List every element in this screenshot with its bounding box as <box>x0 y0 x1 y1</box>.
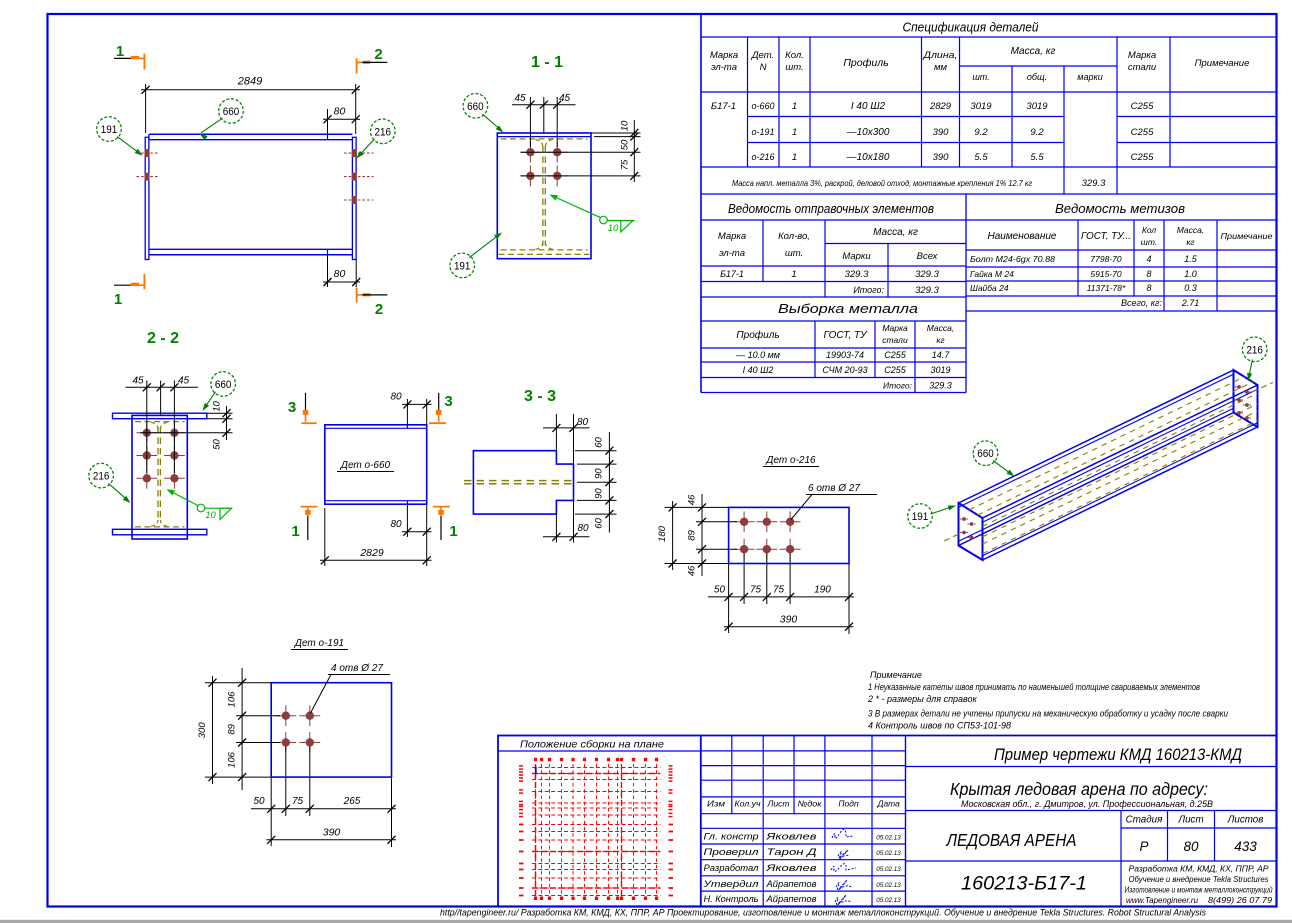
label circle 660 (section 1-1) <box>463 94 488 119</box>
svg-text:660: 660 <box>215 379 232 391</box>
dimensions 46/89/46 (left of o-216) <box>665 494 738 576</box>
svg-text:89: 89 <box>227 723 238 734</box>
svg-text:50: 50 <box>620 139 631 150</box>
svg-text:191: 191 <box>101 124 118 136</box>
svg-text:2 - 2: 2 - 2 <box>147 330 179 347</box>
leader 660 (2-2) <box>204 392 216 410</box>
leader 216 to right plate <box>358 139 375 157</box>
svg-text:90: 90 <box>594 468 605 479</box>
svg-text:Изготовление и монтаж металлок: Изготовление и монтаж металлоконструкций <box>1125 886 1274 895</box>
svg-text:— 10.0 мм: — 10.0 мм <box>735 350 780 360</box>
dimension 80 bottom right <box>323 255 360 287</box>
bottom flange (2-2) <box>113 529 207 535</box>
center hidden lines (3-3) <box>464 481 574 484</box>
svg-text:8: 8 <box>1146 283 1151 293</box>
svg-text:Итого:: Итого: <box>853 285 884 295</box>
svg-text:329.3: 329.3 <box>915 269 939 280</box>
svg-text:С255: С255 <box>1131 101 1154 112</box>
bolts on left end face (3D) <box>960 517 976 539</box>
label circle 191 (3D) <box>908 504 933 529</box>
detail view o-216 <box>763 455 819 467</box>
dimension 45/45 (top of 1-1) <box>512 93 576 147</box>
section mark 3 (top right of o-660) <box>429 393 453 423</box>
svg-text:10: 10 <box>620 120 631 131</box>
leader 660 (3D) <box>993 461 1013 475</box>
svg-text:05.02.13: 05.02.13 <box>876 866 901 873</box>
svg-text:Н. Контроль: Н. Контроль <box>704 894 759 904</box>
svg-text:Дет о-216: Дет о-216 <box>765 455 816 466</box>
svg-text:Изм: Изм <box>707 799 725 809</box>
dimensions 10/50 (right of 2-2) <box>140 401 233 450</box>
label circle 191 (section 1-1) <box>450 253 475 278</box>
svg-text:Яковлев: Яковлев <box>765 832 817 842</box>
svg-text:80: 80 <box>334 268 346 280</box>
svg-text:Утвердил: Утвердил <box>702 879 758 889</box>
svg-text:Болт М24-6gх 70.88: Болт М24-6gх 70.88 <box>970 255 1056 264</box>
svg-text:С255: С255 <box>1131 127 1154 138</box>
svg-text:кг: кг <box>936 335 944 345</box>
leader 191 to left plate <box>117 137 141 155</box>
dimensions 10/50/75 (right of 1-1) <box>521 120 641 182</box>
table: specification data rows <box>711 101 1154 189</box>
svg-text:Марки: Марки <box>842 251 871 262</box>
long edges <box>959 370 1234 503</box>
svg-text:Кол: Кол <box>1142 225 1157 235</box>
svg-text:Масса, кг: Масса, кг <box>873 227 918 238</box>
table: metal selection grid <box>701 297 966 393</box>
svg-text:Стадия: Стадия <box>1126 815 1163 826</box>
svg-text:4 отв Ø 27: 4 отв Ø 27 <box>331 663 383 674</box>
svg-text:2 * - размеры для справок: 2 * - размеры для справок <box>867 694 978 704</box>
svg-text:Марка: Марка <box>710 50 738 61</box>
svg-text:5915-70: 5915-70 <box>1090 269 1121 279</box>
svg-text:С255: С255 <box>884 365 907 375</box>
svg-text:Кол.: Кол. <box>785 50 804 61</box>
table: hardware list text <box>970 202 1273 308</box>
detail view o-660 <box>325 425 427 504</box>
svg-text:75: 75 <box>292 796 304 807</box>
svg-text:7798-70: 7798-70 <box>1090 254 1121 264</box>
svg-text:660: 660 <box>977 448 994 460</box>
svg-text:шт.: шт. <box>972 72 989 82</box>
leader 191 (3D) <box>931 506 954 514</box>
svg-text:Масса, кг: Масса, кг <box>1011 46 1056 57</box>
svg-text:10: 10 <box>608 223 619 234</box>
svg-text:80: 80 <box>1183 839 1199 854</box>
svg-text:Проверил: Проверил <box>704 847 759 857</box>
svg-text:80: 80 <box>577 523 589 534</box>
label Det o-660 <box>337 460 394 472</box>
plate o-191 face (section 1-1) <box>497 133 591 259</box>
svg-text:стали: стали <box>882 335 908 345</box>
svg-text:Московская обл., г. Дмитров, у: Московская обл., г. Дмитров, ул. Професс… <box>961 799 1213 809</box>
svg-text:300: 300 <box>197 722 208 739</box>
svg-text:ГОСТ, ТУ...: ГОСТ, ТУ... <box>1081 231 1131 242</box>
label circle 660 (section 2-2) <box>211 372 236 397</box>
svg-text:9.2: 9.2 <box>974 127 988 138</box>
svg-text:Марка: Марка <box>718 231 746 242</box>
svg-text:19903-74: 19903-74 <box>826 350 864 360</box>
svg-text:05.02.13: 05.02.13 <box>876 850 901 857</box>
svg-text:3 В размерах детали не учтены: 3 В размерах детали не учтены припуски н… <box>868 709 1228 719</box>
svg-text:Дет о-191: Дет о-191 <box>294 638 344 649</box>
dimensions 106/89/106 (left of o-191) <box>205 668 280 790</box>
svg-text:50: 50 <box>212 439 223 450</box>
svg-text:05.02.13: 05.02.13 <box>876 835 901 842</box>
dimension 80 (bottom of 3-3) <box>543 500 590 542</box>
svg-text:4 Контроль швов по СП53-101-9: 4 Контроль швов по СП53-101-98 <box>868 721 1011 731</box>
svg-text:190: 190 <box>814 585 831 596</box>
dimension 80 (bottom of o-660) <box>390 504 431 537</box>
beam bottom flange <box>149 248 353 250</box>
svg-text:80: 80 <box>390 392 402 403</box>
bolts on right end face (3D) <box>1235 385 1251 420</box>
svg-text:14.7: 14.7 <box>932 350 951 360</box>
svg-text:Гайка М 24: Гайка М 24 <box>970 269 1014 279</box>
label circle 216 (section 2-2) <box>89 463 114 488</box>
svg-text:шт.: шт. <box>785 248 803 259</box>
svg-text:Кол-во,: Кол-во, <box>778 231 810 242</box>
svg-text:660: 660 <box>467 101 484 113</box>
section mark 2 (bottom) <box>357 288 388 319</box>
svg-text:11371-78*: 11371-78* <box>1087 283 1126 293</box>
svg-text:Пример чертежи КМД 160213-КМД: Пример чертежи КМД 160213-КМД <box>994 745 1242 764</box>
svg-text:390: 390 <box>933 127 950 138</box>
svg-text:329.3: 329.3 <box>1082 178 1106 189</box>
label circle 216 (3D) <box>1242 337 1267 362</box>
svg-text:Всего, кг:: Всего, кг: <box>1121 298 1163 308</box>
svg-text:46: 46 <box>687 565 698 576</box>
bolts at right plate (elevation) <box>344 149 374 204</box>
svg-text:Всех: Всех <box>917 251 939 262</box>
svg-text:Масса,: Масса, <box>927 323 955 333</box>
svg-text:2829: 2829 <box>929 101 952 112</box>
svg-text:1: 1 <box>291 523 299 540</box>
signature rows text <box>702 832 901 905</box>
bottom gray window strip <box>0 920 1292 923</box>
svg-text:216: 216 <box>375 126 392 138</box>
svg-text:80: 80 <box>390 519 402 530</box>
svg-text:мм: мм <box>934 62 948 73</box>
dimensions 50/75/265 (bottom of o-191) <box>251 747 396 848</box>
weld symbol 10 (section 1-1) <box>550 195 635 234</box>
svg-text:Примечание: Примечание <box>870 670 922 680</box>
left end plate face <box>959 503 983 560</box>
svg-text:Айрапетов: Айрапетов <box>765 879 816 889</box>
svg-text:Итого:: Итого: <box>883 381 913 391</box>
svg-text:2849: 2849 <box>237 76 262 88</box>
svg-text:о-191: о-191 <box>751 127 774 137</box>
svg-text:3: 3 <box>288 399 296 416</box>
table: specification of details (Spetsifikatsiya detaley) grid <box>701 14 1277 194</box>
svg-text:Тарон Д: Тарон Д <box>767 847 818 857</box>
svg-text:45: 45 <box>514 93 526 104</box>
flange splice marks at 80 <box>327 134 329 140</box>
svg-text:Шайба 24: Шайба 24 <box>970 283 1009 293</box>
svg-text:Подп: Подп <box>838 799 859 809</box>
bolts at left plate (elevation) <box>137 149 158 181</box>
section mark 1 (bottom right of o-660) <box>433 507 458 540</box>
svg-text:эл-та: эл-та <box>719 248 745 259</box>
svg-text:75: 75 <box>620 159 631 170</box>
dimensions 50/75/75/190 (bottom of o-216) <box>708 553 854 634</box>
svg-text:№док: №док <box>798 799 823 809</box>
svg-text:660: 660 <box>223 106 240 118</box>
svg-text:1 Неуказанные катеты швов при: 1 Неуказанные катеты швов принимать по н… <box>868 682 1200 692</box>
stage/sheet boxes text <box>1126 815 1264 855</box>
svg-text:2: 2 <box>375 301 383 318</box>
svg-text:191: 191 <box>454 260 471 272</box>
svg-text:Положение сборки на плане: Положение сборки на плане <box>520 739 664 751</box>
table: metal selection text <box>735 301 954 391</box>
svg-text:Дата: Дата <box>876 799 900 809</box>
table: specification header text <box>710 21 1250 83</box>
svg-text:1: 1 <box>792 127 797 138</box>
svg-text:Выборка металла: Выборка металла <box>778 301 918 316</box>
svg-text:8(499) 26 07 79: 8(499) 26 07 79 <box>1208 896 1273 905</box>
svg-text:2.71: 2.71 <box>1181 298 1200 308</box>
svg-text:эл-та: эл-та <box>711 62 737 73</box>
dimension 180 (o-216) <box>657 501 677 570</box>
flange plan outline with notches (3-3) <box>473 451 573 514</box>
svg-text:5.5: 5.5 <box>1030 152 1044 163</box>
dimensions 60/90/90/60 (right of 3-3) <box>575 432 617 533</box>
svg-text:5.5: 5.5 <box>974 152 988 163</box>
table: hardware list (metizov) grid <box>966 220 1277 311</box>
svg-text:о-216: о-216 <box>751 152 774 162</box>
svg-text:Айрапетов: Айрапетов <box>765 894 816 904</box>
svg-text:Спецификация деталей: Спецификация деталей <box>903 21 1039 35</box>
dimension 80 (top of o-660) <box>390 392 431 425</box>
hidden web/flange dashed (2-2) <box>135 422 185 527</box>
svg-text:1: 1 <box>116 43 124 60</box>
svg-text:1: 1 <box>114 291 122 308</box>
svg-text:СЧМ 20-93: СЧМ 20-93 <box>822 365 867 375</box>
top flange (2-2) <box>113 413 207 419</box>
dimension 390 (o-216) <box>724 604 854 633</box>
svg-text:Кол.уч: Кол.уч <box>735 799 762 809</box>
svg-text:46: 46 <box>687 494 698 505</box>
svg-text:шт.: шт. <box>1141 237 1157 247</box>
label circle 216 (elevation) <box>371 119 396 144</box>
title block: main title area grid <box>906 736 1277 907</box>
leader 660 (1-1) <box>483 114 503 131</box>
red grid: assembly position plan <box>519 758 673 900</box>
svg-text:Б17-1: Б17-1 <box>711 101 736 112</box>
svg-text:Б17-1: Б17-1 <box>720 269 744 279</box>
svg-text:С255: С255 <box>1131 152 1154 163</box>
svg-text:1: 1 <box>449 523 457 540</box>
dimension 2829 (o-660) <box>320 508 432 566</box>
label circle 191 (elevation) <box>97 117 122 142</box>
svg-text:90: 90 <box>594 488 605 499</box>
svg-text:75: 75 <box>773 585 785 596</box>
flange edge line <box>497 136 591 138</box>
svg-text:стали: стали <box>1128 62 1157 73</box>
dimension 45/45 (top of 2-2) <box>126 376 199 474</box>
svg-text:89: 89 <box>687 530 698 541</box>
svg-text:45: 45 <box>132 376 144 387</box>
svg-text:Лист: Лист <box>766 799 789 809</box>
svg-text:9.2: 9.2 <box>1030 127 1044 138</box>
hidden I-beam outline (dashed) <box>499 139 590 255</box>
svg-text:50: 50 <box>714 585 726 596</box>
label circle 660 (elevation) <box>219 99 244 124</box>
svg-text:180: 180 <box>657 525 668 542</box>
end plate o-216 (right) <box>352 137 356 259</box>
plate o-216 outline <box>729 507 849 563</box>
svg-text:45: 45 <box>178 376 190 387</box>
section mark 1 (bottom) <box>114 274 145 308</box>
svg-text:1.5: 1.5 <box>1184 254 1198 264</box>
svg-text:I 40 Ш2: I 40 Ш2 <box>743 365 774 375</box>
svg-text:Крытая ледовая арена по адресу: Крытая ледовая арена по адресу: <box>950 779 1208 799</box>
bolts 2x3 (section 2-2) <box>136 422 184 488</box>
svg-text:80: 80 <box>334 106 346 118</box>
end plate o-191 (left) <box>145 137 149 259</box>
signature table header text <box>707 799 900 809</box>
svg-text:1: 1 <box>792 101 797 112</box>
svg-text:50: 50 <box>253 796 265 807</box>
svg-text:191: 191 <box>912 511 929 523</box>
svg-text:1.0: 1.0 <box>1184 269 1197 279</box>
svg-text:Дет о-660: Дет о-660 <box>340 460 391 471</box>
svg-text:Примечание: Примечание <box>1221 231 1273 241</box>
svg-text:433: 433 <box>1234 839 1257 854</box>
plate o-216 face (section 2-2) <box>132 415 187 539</box>
svg-text:10: 10 <box>212 401 223 412</box>
svg-text:I 40 Ш2: I 40 Ш2 <box>851 101 886 112</box>
svg-text:Ведомость метизов: Ведомость метизов <box>1055 202 1185 216</box>
beam top flange <box>149 133 353 135</box>
company info text <box>1125 865 1274 906</box>
svg-text:Примечание: Примечание <box>1195 58 1250 69</box>
svg-text:Разработка КМ, КМД, КХ, ППР, А: Разработка КМ, КМД, КХ, ППР, АР <box>1129 865 1270 874</box>
svg-text:марки: марки <box>1077 72 1102 82</box>
svg-text:216: 216 <box>1246 344 1263 356</box>
svg-text:45: 45 <box>559 93 571 104</box>
section mark 1 (top) <box>114 43 144 70</box>
svg-text:кг: кг <box>1186 237 1194 247</box>
leader 216 (2-2) <box>109 483 130 501</box>
svg-text:http//tapengineer.ru/ Разрабо: http//tapengineer.ru/ Разработка КМ, КМД… <box>440 908 1207 918</box>
svg-text:80: 80 <box>577 417 589 428</box>
svg-text:3019: 3019 <box>930 365 950 375</box>
svg-text:N: N <box>760 62 767 73</box>
svg-text:05.02.13: 05.02.13 <box>876 882 901 889</box>
leader 6 holes d27 <box>791 483 877 520</box>
svg-text:www.Tapengineer.ru: www.Tapengineer.ru <box>1126 896 1199 905</box>
svg-text:3019: 3019 <box>970 101 992 112</box>
svg-text:329.3: 329.3 <box>915 285 939 296</box>
notes (Primechanie) <box>867 670 1228 731</box>
leader 216 (3D) <box>1249 360 1253 379</box>
section mark 3 (top left of o-660) <box>288 393 317 423</box>
svg-text:60: 60 <box>594 437 605 448</box>
section mark 1 (bottom left of o-660) <box>291 507 317 540</box>
svg-text:Профиль: Профиль <box>843 57 888 69</box>
title block: assembly position plan box <box>498 736 701 907</box>
svg-text:10: 10 <box>205 510 216 521</box>
svg-text:шт.: шт. <box>785 62 803 73</box>
svg-text:160213-Б17-1: 160213-Б17-1 <box>961 874 1087 895</box>
svg-text:Масса напл. металла 3%, раскро: Масса напл. металла 3%, раскрой, деловой… <box>732 179 1032 188</box>
svg-text:3 - 3: 3 - 3 <box>524 388 556 405</box>
svg-text:Гл. констр: Гл. констр <box>704 832 759 842</box>
svg-text:Длина,: Длина, <box>922 50 957 61</box>
weld symbol 10 (section 2-2) <box>167 489 233 521</box>
svg-text:0.3: 0.3 <box>1184 283 1197 293</box>
bolts 2x2 (section 1-1) <box>520 142 568 187</box>
3D isometric view of beam <box>944 370 1273 560</box>
svg-text:4: 4 <box>1146 254 1151 264</box>
svg-text:Масса,: Масса, <box>1177 225 1205 235</box>
bolts 2x2 (o-191) <box>275 705 320 753</box>
leader 660 to top flange <box>201 118 223 133</box>
bolts 3x2 (o-216) <box>734 511 801 559</box>
svg-text:Р: Р <box>1139 839 1148 854</box>
svg-text:о-660: о-660 <box>751 101 774 111</box>
svg-text:2829: 2829 <box>359 547 384 559</box>
label circle 660 (3D) <box>973 441 998 466</box>
table: shipping elements list grid <box>701 194 966 393</box>
svg-text:390: 390 <box>780 614 798 626</box>
svg-text:8: 8 <box>1146 269 1151 279</box>
dimension 300 (o-191) <box>197 676 217 784</box>
svg-text:329.3: 329.3 <box>929 381 952 391</box>
svg-text:3: 3 <box>444 393 452 410</box>
dimension 80 (top of 3-3) <box>543 414 590 464</box>
svg-text:106: 106 <box>227 691 238 708</box>
svg-text:390: 390 <box>933 152 950 163</box>
inner flange edges <box>959 374 1234 507</box>
svg-text:1 - 1: 1 - 1 <box>531 54 563 71</box>
svg-text:60: 60 <box>594 517 605 528</box>
right end plate face <box>1234 370 1258 427</box>
svg-text:1: 1 <box>791 269 796 280</box>
svg-text:Яковлев: Яковлев <box>765 863 817 873</box>
svg-text:216: 216 <box>93 471 110 483</box>
svg-text:Профиль: Профиль <box>736 329 779 341</box>
signature scribbles <box>831 829 856 905</box>
svg-text:6 отв Ø 27: 6 отв Ø 27 <box>808 483 860 494</box>
svg-text:Марка: Марка <box>882 323 908 333</box>
svg-text:329.3: 329.3 <box>845 269 869 280</box>
svg-text:3019: 3019 <box>1026 101 1048 112</box>
dimension 80 top right <box>323 106 360 140</box>
svg-text:05.02.13: 05.02.13 <box>876 897 901 904</box>
svg-text:Листов: Листов <box>1227 815 1264 826</box>
svg-text:—10х180: —10х180 <box>846 152 890 163</box>
plate o-191 outline <box>271 683 391 777</box>
svg-text:Дет.: Дет. <box>751 50 774 61</box>
svg-text:Ведомость отправочных элементо: Ведомость отправочных элементов <box>728 202 934 216</box>
leader 4 holes d27 <box>311 663 391 713</box>
svg-text:—10х300: —10х300 <box>846 127 890 138</box>
svg-text:Наименование: Наименование <box>987 231 1056 242</box>
table: shipping elements text <box>718 202 940 296</box>
section mark 2 (top) <box>357 46 388 74</box>
svg-text:2: 2 <box>374 46 382 63</box>
hidden lines along beam <box>969 377 1244 510</box>
svg-text:1: 1 <box>792 152 797 163</box>
main elevation view: beam B17-1 <box>145 134 356 259</box>
svg-text:Обучение и внедрение Tekla St: Обучение и внедрение Tekla Structures <box>1129 875 1269 884</box>
svg-text:Лист: Лист <box>1177 815 1203 826</box>
svg-text:общ.: общ. <box>1027 72 1047 82</box>
dimension 2849 (overall) <box>141 76 360 135</box>
title block: signature table grid <box>701 736 906 907</box>
